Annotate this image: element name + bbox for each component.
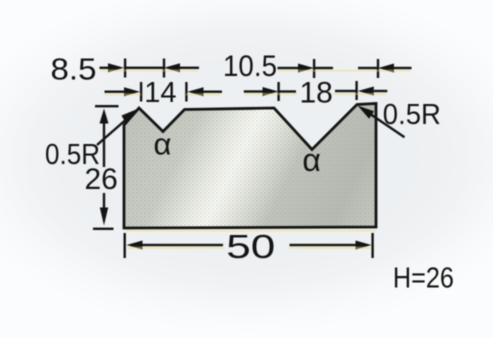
scan tint under dimension lines <box>100 69 410 249</box>
radius leader left <box>97 109 139 146</box>
dimension 8.5 span line <box>126 67 163 69</box>
svg-text:18: 18 <box>300 76 333 109</box>
dimension 8.5 right tick <box>163 59 165 78</box>
dimension 18 right tick <box>355 81 357 100</box>
svg-text:14: 14 <box>144 77 176 109</box>
dimension 50 right arrow line <box>290 241 372 250</box>
dimension 18 left tick <box>277 82 279 101</box>
dimension 14 left arrow line <box>105 87 141 96</box>
dimension 18 left arrow line <box>244 87 279 96</box>
dimension 14 right arrow line <box>188 87 223 96</box>
dimension 26 top tick <box>95 105 119 107</box>
dimension 26 up arrow <box>100 109 109 168</box>
dimension 50 left arrow line <box>127 241 224 250</box>
dimension 10.5 left stub <box>315 67 333 69</box>
dimension 18 left stub <box>280 90 297 92</box>
dimension 18 right line <box>335 90 357 92</box>
dimension 18 right arrow line <box>358 87 388 96</box>
dimension 10.5 right arrow line <box>378 64 412 73</box>
radius leader right <box>358 106 405 138</box>
svg-text:8.5: 8.5 <box>51 52 97 87</box>
dimension 8.5 left arrow line <box>100 63 125 72</box>
svg-text:α: α <box>302 142 321 178</box>
svg-text:H=26: H=26 <box>393 263 454 295</box>
dimension 10.5 right tick <box>377 59 379 78</box>
dimension 8.5 left tick <box>124 59 126 78</box>
dimension 10.5 right stub <box>358 67 377 69</box>
dimension 8.5 right arrow line <box>164 63 199 72</box>
dimension 50 left tick <box>124 233 126 258</box>
dimension 10.5 left tick <box>313 59 315 78</box>
dimension 10.5 left arrow line <box>278 64 315 73</box>
die body <box>124 104 376 229</box>
svg-text:50: 50 <box>226 228 275 265</box>
dimension 26 bottom tick <box>93 228 114 230</box>
dimension 14 right tick <box>185 82 187 102</box>
dimension 14 left tick <box>140 82 142 102</box>
dimension 50 right tick <box>371 233 373 258</box>
svg-text:0.5R: 0.5R <box>383 99 441 131</box>
svg-text:26: 26 <box>85 163 118 196</box>
dimension 26 down arrow <box>100 193 108 226</box>
svg-text:10.5: 10.5 <box>223 50 277 83</box>
svg-text:α: α <box>154 127 172 162</box>
